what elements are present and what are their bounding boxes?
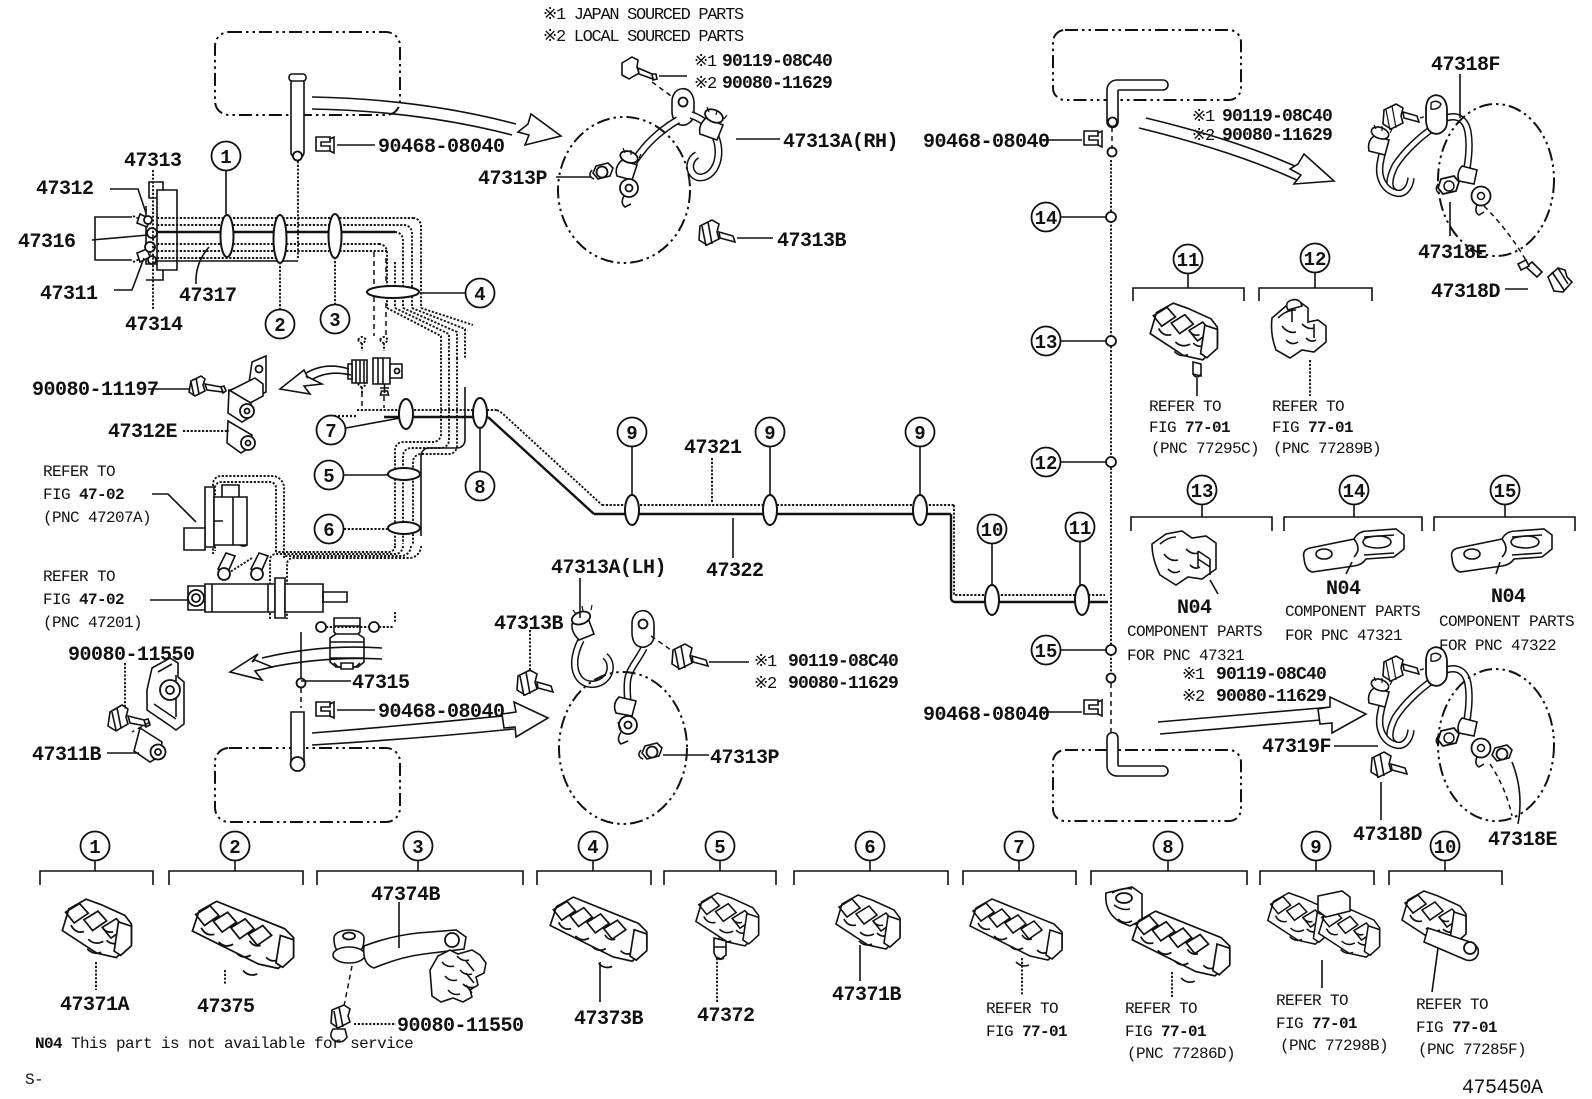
svg-text:47313: 47313	[124, 150, 182, 173]
leader b9	[1321, 960, 1323, 988]
circled 8	[466, 429, 495, 501]
svg-text:90080-11550: 90080-11550	[68, 644, 195, 667]
horizontal run through 7 and 8	[330, 410, 497, 417]
clamp ellipse 9a	[625, 495, 639, 525]
svg-text:FOR PNC 47321: FOR PNC 47321	[1285, 627, 1402, 645]
arrow to LH hose	[312, 702, 548, 745]
manifold fittings 47312/47316/47311	[133, 214, 157, 264]
nut 47318E bottom extra	[1492, 745, 1512, 761]
curl symbols	[358, 337, 389, 395]
bottom bracket 8	[1091, 871, 1247, 885]
bracket group 13	[1131, 517, 1272, 531]
screw 90080-11197	[189, 376, 226, 396]
svg-text:47371B: 47371B	[832, 984, 902, 1007]
svg-text:47317: 47317	[179, 285, 237, 308]
clamp ellipse 4	[367, 286, 419, 298]
svg-text:N04 This part is not available: N04 This part is not available for servi…	[35, 1035, 413, 1053]
leader 47312	[110, 189, 146, 213]
hose 47318F	[1369, 95, 1491, 215]
svg-text:1: 1	[220, 147, 231, 169]
svg-text:REFER TO: REFER TO	[43, 568, 115, 586]
circled 15a	[1032, 636, 1107, 665]
svg-text:47321: 47321	[684, 437, 742, 460]
circled b1	[81, 832, 110, 872]
svg-text:FIG 47-02: FIG 47-02	[43, 591, 124, 609]
dashed ellipse RH	[558, 117, 690, 263]
svg-text:※2: ※2	[1192, 127, 1214, 146]
svg-text:47318E: 47318E	[1488, 829, 1558, 852]
dash screw to tab	[652, 82, 682, 104]
screw 47313B top	[699, 220, 735, 246]
circled 11a	[1066, 513, 1095, 586]
svg-text:90468-08040: 90468-08040	[378, 701, 505, 724]
bracket 47374B	[333, 930, 486, 1002]
leader b7	[1021, 958, 1023, 996]
leader 47375	[224, 970, 226, 984]
dashed drop to node	[297, 632, 306, 708]
svg-text:COMPONENT PARTS: COMPONENT PARTS	[1127, 623, 1262, 641]
leader 90080-11550	[124, 663, 126, 709]
bracket arm 14 drawing	[1304, 529, 1404, 572]
svg-text:4: 4	[474, 284, 485, 306]
circled 11b	[1174, 245, 1203, 289]
bundle jog right	[387, 308, 473, 358]
arrow unions to 47312E	[280, 366, 351, 394]
clip 90468 bottom-left	[316, 702, 334, 718]
svg-text:N04: N04	[1177, 597, 1212, 620]
svg-text:6: 6	[864, 837, 875, 859]
circled 5	[315, 461, 389, 490]
master cylinder PNC 47201	[188, 553, 347, 618]
svg-text:3: 3	[329, 310, 340, 332]
leader clamp 13	[1210, 580, 1218, 594]
clamp ellipse 7	[399, 399, 413, 429]
leader 47313B top	[737, 237, 773, 239]
svg-text:90080-11629: 90080-11629	[1216, 687, 1326, 707]
svg-text:47318E: 47318E	[1418, 242, 1488, 265]
clamp 47371B	[836, 895, 900, 949]
leader 47371A	[95, 962, 97, 990]
clamp b10	[1402, 891, 1478, 960]
leader 47313/47314 dashed	[152, 170, 154, 310]
dotted leader from loop to 47201	[230, 558, 252, 572]
circled 9a	[618, 418, 647, 496]
vertical bundle upper	[387, 262, 421, 308]
grommet nodes near 47315	[316, 612, 395, 632]
bracket group 12	[1259, 288, 1372, 301]
circled 9b	[756, 418, 785, 496]
bottom bracket 6	[794, 871, 948, 885]
clamp ellipse 1	[221, 215, 234, 257]
svg-text:FIG 47-02: FIG 47-02	[43, 486, 124, 504]
wire band bends into vertical bundle	[379, 218, 421, 262]
bottom bracket 3	[317, 871, 523, 885]
body outline box bottom-left	[215, 748, 400, 822]
circled b9	[1302, 832, 1331, 872]
leader arm 15	[1496, 562, 1500, 574]
circled b2	[221, 832, 250, 872]
clip 90468 top-left	[316, 137, 334, 153]
svg-text:(PNC 77286D): (PNC 77286D)	[1127, 1045, 1235, 1063]
circled b3	[404, 832, 433, 872]
union fitting left	[348, 360, 367, 383]
circled 7	[317, 416, 401, 445]
circled b4	[579, 832, 608, 872]
svg-text:3: 3	[412, 837, 423, 859]
arrow to 47318F	[1139, 118, 1334, 184]
screw at RH hose top	[622, 57, 657, 80]
svg-text:90468-08040: 90468-08040	[923, 131, 1050, 154]
union fitting right	[373, 358, 402, 384]
dashed ellipse 47319	[1438, 669, 1554, 821]
svg-text:9: 9	[626, 423, 637, 445]
hose 47313A RH	[616, 89, 727, 207]
svg-text:FOR PNC 47322: FOR PNC 47322	[1439, 637, 1556, 655]
circled 6	[315, 515, 389, 544]
svg-text:47313B: 47313B	[494, 613, 564, 636]
svg-text:FIG 77-01: FIG 77-01	[986, 1023, 1067, 1041]
circled 2	[266, 264, 295, 339]
stud under clamp 11	[1193, 362, 1201, 377]
circled b5	[706, 832, 735, 872]
svg-text:9: 9	[914, 423, 925, 445]
leader 47372	[716, 958, 718, 1002]
svg-text:90119-08C40: 90119-08C40	[1216, 665, 1326, 685]
clamp b9	[1268, 891, 1380, 957]
svg-text:REFER TO: REFER TO	[1149, 398, 1221, 416]
svg-text:REFER TO: REFER TO	[1125, 1000, 1197, 1018]
svg-text:47319F: 47319F	[1262, 736, 1331, 759]
clamp 47375	[192, 901, 293, 975]
manifold bracket 47317	[146, 182, 177, 280]
circled 4	[420, 279, 495, 308]
svg-text:90468-08040: 90468-08040	[378, 136, 505, 159]
clamp ellipse 10	[985, 585, 999, 615]
clamp 13 drawing	[1152, 531, 1216, 585]
svg-text:47371A: 47371A	[60, 994, 130, 1017]
svg-text:※2 LOCAL SOURCED PARTS: ※2 LOCAL SOURCED PARTS	[543, 28, 744, 47]
leader b8	[1171, 972, 1173, 998]
leader 47313A RH	[736, 138, 780, 140]
dashes screw to bracket	[228, 382, 250, 391]
clamp ellipse 6	[388, 522, 420, 534]
screw 47318D top	[1518, 260, 1572, 292]
leader 47317	[196, 247, 209, 284]
svg-text:REFER TO: REFER TO	[1272, 398, 1344, 416]
clamp 47373B	[550, 897, 647, 967]
svg-text:(PNC 77298B): (PNC 77298B)	[1280, 1037, 1388, 1055]
dashed ellipse LH	[559, 672, 687, 824]
svg-text:1: 1	[89, 837, 100, 859]
svg-text:FIG 77-01: FIG 77-01	[1149, 419, 1230, 437]
body outline box bottom-right	[1053, 750, 1241, 821]
leader 47311B	[107, 752, 139, 754]
svg-text:COMPONENT PARTS: COMPONENT PARTS	[1285, 603, 1420, 621]
svg-text:47311: 47311	[40, 283, 98, 306]
clamp 47371A	[62, 899, 131, 957]
leader clamp 11	[1196, 378, 1198, 396]
pin top-left	[289, 74, 306, 258]
svg-text:90119-08C40: 90119-08C40	[722, 52, 832, 72]
leader 90080-11550 bottom	[354, 1023, 396, 1025]
svg-text:8: 8	[474, 477, 485, 499]
leader 47371B	[859, 945, 861, 981]
clamp b8	[1106, 887, 1230, 982]
svg-text:2: 2	[229, 837, 240, 859]
svg-text:15: 15	[1494, 481, 1517, 503]
leader 47318E top	[1449, 202, 1451, 236]
leader 47207A	[152, 494, 196, 522]
leader 47373B	[599, 962, 601, 1002]
screw 90080-11550 bottom	[331, 1005, 350, 1042]
elbow pipe top-right	[1107, 80, 1168, 128]
svg-text:(PNC 77285F): (PNC 77285F)	[1418, 1041, 1526, 1059]
leader 47311	[114, 258, 144, 290]
circled b7	[1005, 832, 1034, 872]
leader 47313P bottom	[663, 754, 709, 756]
dashes screw to grommet	[344, 966, 352, 1006]
nut 47313P top	[590, 163, 613, 179]
node 15 on vertical tube	[1106, 645, 1116, 655]
clamp ellipse 3	[329, 214, 342, 258]
bracket group 14	[1284, 517, 1422, 531]
svg-text:47315: 47315	[352, 672, 410, 695]
svg-text:FIG 77-01: FIG 77-01	[1125, 1023, 1206, 1041]
svg-text:13: 13	[1191, 481, 1214, 503]
clamp b7	[970, 899, 1062, 966]
leader 47322	[732, 518, 734, 558]
svg-text:FIG 77-01: FIG 77-01	[1276, 1015, 1357, 1033]
bottom bracket 5	[664, 871, 776, 885]
leader screw LH to 90119	[709, 661, 749, 663]
svg-text:10: 10	[1434, 837, 1457, 859]
svg-text:※1: ※1	[694, 53, 717, 72]
leader screw to 90119 label	[659, 75, 687, 77]
clip 90468 bottom-right	[1084, 700, 1102, 716]
leader b10	[1432, 948, 1438, 992]
svg-text:47314: 47314	[125, 314, 183, 337]
svg-text:2: 2	[274, 315, 285, 337]
leader 47318D bottom	[1380, 782, 1382, 820]
screw 47313B bottom	[517, 670, 553, 696]
svg-text:15: 15	[1035, 641, 1058, 663]
main run 47321/47322	[594, 505, 1108, 602]
bracket group 11	[1133, 288, 1244, 301]
svg-text:(PNC 47201): (PNC 47201)	[43, 614, 142, 632]
svg-text:N04: N04	[1326, 578, 1361, 601]
circled 15b	[1491, 476, 1520, 518]
svg-text:47374B: 47374B	[371, 884, 441, 907]
svg-text:90080-11550: 90080-11550	[397, 1015, 524, 1038]
leader 47316	[92, 235, 148, 240]
leader 47318E bottom	[1512, 762, 1520, 824]
dashed drops to unions	[362, 252, 386, 408]
svg-text:7: 7	[1013, 837, 1024, 859]
leader arm 14	[1346, 562, 1352, 574]
leader 47318F	[1459, 74, 1461, 118]
svg-text:※1: ※1	[1192, 108, 1215, 127]
leader clamp 12	[1309, 360, 1311, 396]
svg-text:90080-11629: 90080-11629	[1222, 126, 1332, 146]
svg-text:47375: 47375	[197, 996, 255, 1019]
svg-text:47313P: 47313P	[478, 168, 548, 191]
clamp ellipse 11x	[1075, 585, 1089, 615]
svg-text:47312: 47312	[36, 178, 94, 201]
svg-text:8: 8	[1162, 837, 1173, 859]
svg-text:47318D: 47318D	[1353, 824, 1423, 847]
svg-text:10: 10	[981, 520, 1004, 542]
leader 47312E	[183, 430, 229, 432]
svg-text:90119-08C40: 90119-08C40	[788, 652, 898, 672]
circled 13b	[1188, 476, 1217, 518]
arrow to 47319F	[1158, 697, 1366, 734]
leader 47315	[301, 680, 351, 682]
svg-text:47311B: 47311B	[32, 744, 102, 767]
leader 47313P top	[556, 176, 591, 178]
svg-text:47313A(LH): 47313A(LH)	[551, 557, 666, 580]
svg-text:11: 11	[1069, 518, 1092, 540]
svg-text:90080-11629: 90080-11629	[788, 674, 898, 694]
svg-text:12: 12	[1035, 453, 1058, 475]
svg-text:(PNC 77295C): (PNC 77295C)	[1151, 440, 1259, 458]
diagonal to main run	[488, 410, 602, 514]
wire tube band from manifold	[157, 218, 413, 261]
leader 47321	[711, 458, 713, 502]
arrow to RH hose top	[312, 97, 561, 145]
vertical tube right	[1107, 127, 1117, 735]
node 12 on vertical tube	[1106, 457, 1116, 467]
svg-text:47318D: 47318D	[1431, 281, 1501, 304]
svg-text:N04: N04	[1491, 586, 1526, 609]
bracket group 15	[1434, 517, 1575, 531]
svg-text:47373B: 47373B	[574, 1008, 644, 1031]
svg-text:4: 4	[587, 837, 598, 859]
circled 12a	[1032, 448, 1107, 477]
circled b8	[1154, 832, 1183, 872]
clamp ellipse 8	[473, 398, 487, 428]
arrow to 47311B	[230, 647, 382, 680]
circled b6	[856, 832, 885, 872]
svg-text:47313B: 47313B	[777, 230, 847, 253]
body outline box top-left	[215, 32, 400, 115]
dash links top	[1484, 206, 1528, 264]
circled 10	[978, 515, 1007, 586]
leader 90468 top-right	[1040, 139, 1082, 141]
leader 90468 bottom-left	[337, 709, 375, 711]
svg-text:11: 11	[1177, 250, 1200, 272]
clamp 12 drawing	[1272, 300, 1327, 358]
LH hose 47313A	[570, 605, 654, 744]
bottom bracket 4	[537, 871, 651, 885]
node 13 on vertical tube	[1106, 336, 1116, 346]
svg-text:47313A(RH): 47313A(RH)	[783, 131, 898, 154]
svg-text:(PNC 77289B): (PNC 77289B)	[1273, 440, 1381, 458]
svg-text:6: 6	[323, 520, 334, 542]
part PNC 47207A drawing	[184, 485, 247, 550]
circled b10	[1431, 832, 1460, 872]
svg-text:(PNC 47207A): (PNC 47207A)	[43, 509, 151, 527]
svg-text:FIG 77-01: FIG 77-01	[1416, 1019, 1497, 1037]
svg-text:COMPONENT PARTS: COMPONENT PARTS	[1439, 613, 1574, 631]
svg-text:※2: ※2	[754, 675, 776, 694]
svg-text:S-: S-	[25, 1071, 43, 1089]
clamp 47372	[696, 893, 759, 959]
svg-text:REFER TO: REFER TO	[986, 1000, 1058, 1018]
svg-text:REFER TO: REFER TO	[1276, 992, 1348, 1010]
svg-text:※2: ※2	[1182, 688, 1204, 707]
svg-text:9: 9	[1310, 837, 1321, 859]
leader 90468 top-left	[337, 144, 375, 146]
bundle jog back left	[395, 358, 465, 546]
hose 47319F	[1369, 647, 1491, 767]
svg-text:90080-11197: 90080-11197	[32, 379, 159, 402]
clip 90468 top-right	[1084, 131, 1102, 147]
pin bottom-left	[291, 712, 305, 771]
circled 14a	[1032, 203, 1107, 232]
svg-text:5: 5	[323, 466, 334, 488]
svg-text:※2: ※2	[694, 75, 716, 94]
clamp ellipse 2	[274, 215, 287, 263]
svg-text:13: 13	[1035, 332, 1058, 354]
leader 47374B	[398, 902, 400, 948]
svg-text:47318F: 47318F	[1431, 54, 1500, 77]
dashed ellipse 47318 top	[1438, 104, 1554, 256]
screw 90080-11550	[108, 705, 150, 731]
bottom bracket 1	[40, 871, 153, 885]
elbow pipe bottom-right	[1107, 733, 1168, 777]
dash links bottom	[1490, 764, 1512, 816]
leader 90468 bottom-right	[1040, 711, 1082, 713]
clamp 11 drawing	[1150, 303, 1217, 360]
svg-text:47312E: 47312E	[108, 421, 178, 444]
svg-text:14: 14	[1035, 208, 1058, 230]
bottom bracket 2	[169, 871, 303, 885]
screw 47318D bottom	[1371, 752, 1407, 778]
bottom bracket 7	[963, 871, 1076, 885]
circled 13a	[1032, 327, 1107, 356]
clamp ellipse 9c	[913, 495, 927, 525]
clamp ellipse 5	[388, 468, 420, 480]
svg-text:90119-08C40: 90119-08C40	[1222, 107, 1332, 127]
circled 14b	[1340, 476, 1369, 518]
svg-text:14: 14	[1343, 481, 1366, 503]
svg-text:475450A: 475450A	[1462, 1077, 1543, 1099]
bracket arm 15 drawing	[1452, 529, 1552, 572]
svg-text:※1: ※1	[754, 653, 777, 672]
svg-text:47372: 47372	[697, 1005, 755, 1028]
leader 90080-11197	[148, 388, 190, 390]
leader 47201	[150, 599, 188, 601]
circled 12b	[1301, 244, 1330, 289]
nut 47313P bottom	[639, 743, 662, 759]
leader 47319F	[1334, 745, 1378, 747]
circled 9c	[906, 418, 935, 496]
svg-text:47313P: 47313P	[710, 747, 780, 770]
bracket for 47316 group	[95, 217, 132, 260]
svg-text:REFER TO: REFER TO	[43, 463, 115, 481]
circled 1	[212, 142, 241, 215]
leader 47313A LH	[579, 578, 581, 618]
clamp ellipse 9b	[763, 495, 777, 525]
bracket 47312E	[227, 356, 266, 453]
body outline box top-right	[1053, 30, 1241, 100]
lower bundle to clutch loop	[213, 476, 421, 620]
leader 47318D top	[1505, 288, 1528, 290]
svg-text:90080-11629: 90080-11629	[722, 74, 832, 94]
bottom bracket 9	[1260, 871, 1374, 885]
leader 47313B bottom	[529, 630, 531, 672]
svg-text:FIG 77-01: FIG 77-01	[1272, 419, 1353, 437]
